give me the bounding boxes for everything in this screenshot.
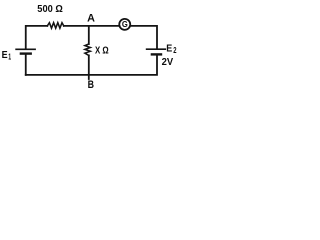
svg-text:E: E: [2, 49, 8, 61]
wire galvanometer to top-right corner down to E2: [130, 26, 157, 49]
svg-text:1: 1: [8, 53, 11, 62]
battery E1 long plate: [16, 48, 35, 50]
wire resistor to galvanometer through node A: [64, 25, 120, 27]
svg-text:2: 2: [173, 46, 177, 55]
resistor R2 X ohm vertical zigzag: [85, 44, 90, 55]
wire left-top: E1 top to corner to resistor: [26, 26, 48, 49]
galvanometer G1 circle: [119, 19, 130, 30]
resistor R1 500 ohm zigzag: [47, 23, 64, 29]
battery E2 short plate: [152, 53, 161, 55]
wire E2 to bottom-right corner and bottom wire: [26, 56, 157, 75]
svg-text:B: B: [88, 79, 95, 91]
svg-text:G: G: [122, 19, 128, 29]
svg-text:2V: 2V: [162, 56, 174, 68]
wire X resistor to node B stub: [88, 55, 90, 79]
svg-text:E: E: [166, 43, 172, 55]
svg-text:X Ω: X Ω: [95, 46, 109, 57]
battery E1 short plate: [21, 52, 31, 54]
wire E1 to bottom-left corner: [25, 55, 27, 75]
svg-text:500 Ω: 500 Ω: [37, 4, 63, 15]
wire node A branch down: [88, 26, 90, 44]
svg-text:A: A: [87, 13, 95, 25]
battery E2 long plate: [147, 48, 166, 50]
